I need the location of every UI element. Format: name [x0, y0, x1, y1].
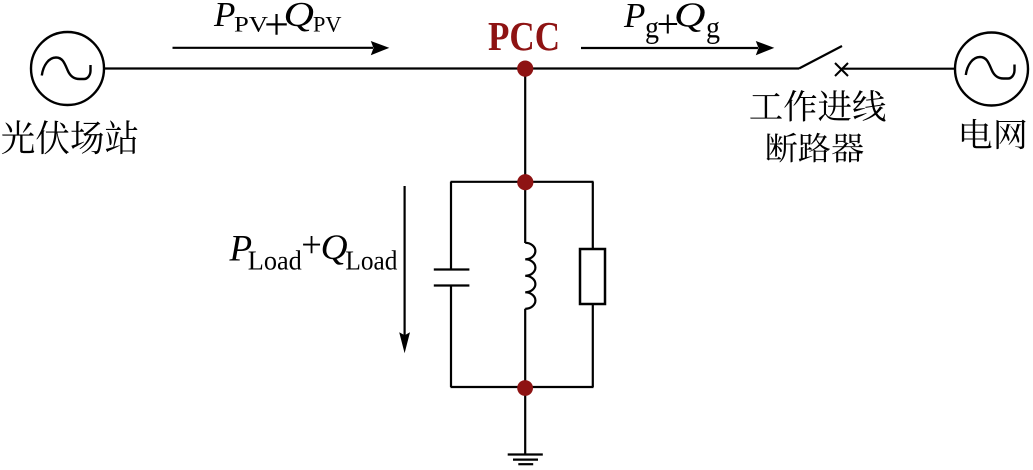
svg-text:PCC: PCC	[488, 13, 560, 59]
svg-text:Q: Q	[321, 227, 348, 267]
svg-text:PV: PV	[313, 12, 342, 37]
svg-text:Q: Q	[284, 0, 315, 34]
svg-text:Q: Q	[674, 0, 706, 35]
svg-text:Load: Load	[248, 246, 302, 276]
svg-text:Load: Load	[345, 246, 397, 276]
svg-text:PV: PV	[234, 12, 268, 37]
svg-text:+: +	[301, 224, 322, 265]
svg-text:g: g	[706, 10, 720, 45]
svg-text:P: P	[623, 0, 645, 35]
svg-text:P: P	[213, 0, 235, 34]
